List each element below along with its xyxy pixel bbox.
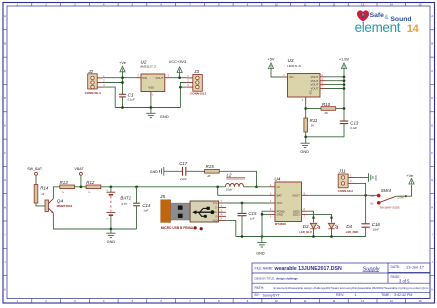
- junction C15 rail: [241, 235, 244, 238]
- wire C13 bottom across: [306, 124, 344, 137]
- wire R14 to Q4 base: [36, 203, 45, 206]
- svg-text:LX: LX: [277, 185, 281, 189]
- svg-text:D-: D-: [215, 208, 218, 210]
- wire C17 to R15: [186, 170, 205, 172]
- svg-text:B: B: [431, 42, 433, 46]
- svg-text:VSS: VSS: [148, 85, 154, 89]
- svg-text:2.2uF: 2.2uF: [179, 177, 187, 181]
- wire U4 VOUT to switch: [307, 194, 378, 196]
- svg-text:10uH: 10uH: [226, 188, 232, 192]
- wire R10 right: [336, 108, 344, 110]
- wire U4 PGND/GND tie: [262, 211, 269, 214]
- svg-text:Q4: Q4: [57, 198, 64, 203]
- resistor R13: [60, 180, 75, 194]
- svg-text:AMS1117_3: AMS1117_3: [139, 64, 156, 68]
- svg-text:NC: NC: [370, 202, 374, 205]
- svg-text:SW-2WAY-SLIDE: SW-2WAY-SLIDE: [380, 205, 400, 209]
- IC U4: [269, 177, 307, 226]
- svg-text:CONN-SIL3: CONN-SIL3: [85, 91, 101, 95]
- svg-text:G: G: [431, 178, 433, 182]
- wire J3 pin2 to ground: [180, 83, 186, 108]
- wire R10 left: [306, 108, 321, 110]
- svg-text:C13: C13: [350, 121, 359, 126]
- wire R13-R12: [75, 186, 87, 188]
- svg-text:1uF: 1uF: [250, 216, 255, 220]
- svg-text:MT3608: MT3608: [275, 222, 286, 226]
- svg-text:3 of 5: 3 of 5: [399, 278, 410, 283]
- svg-text:E: E: [4, 123, 6, 127]
- ground symbol U4: [256, 237, 266, 256]
- svg-text:CONN-SIL2: CONN-SIL2: [338, 189, 354, 193]
- svg-text:U4: U4: [274, 177, 280, 182]
- wire U2 VSS to ground rail: [150, 97, 152, 108]
- connector J5 micro usb: [159, 194, 226, 230]
- junction J3 gnd: [179, 86, 182, 89]
- svg-text:GND: GND: [107, 240, 116, 244]
- junction R11/C13 gnd: [304, 135, 307, 138]
- resistor R11: [304, 118, 318, 132]
- wire main VBAT rail: [101, 186, 225, 188]
- svg-text:H: H: [431, 205, 433, 209]
- wire L2 right to U4 LX: [244, 186, 270, 188]
- junction LX node: [255, 185, 258, 188]
- node VBAT terminal: [74, 167, 84, 175]
- resistor R14: [34, 185, 49, 204]
- svg-text:L2: L2: [227, 172, 232, 177]
- svg-text:2K: 2K: [324, 111, 329, 115]
- junction BAT1: [110, 185, 113, 188]
- svg-text:D: D: [431, 96, 433, 100]
- svg-text:GND: GND: [160, 114, 169, 119]
- svg-text:VIN: VIN: [142, 76, 147, 80]
- svg-text:VOUT: VOUT: [292, 193, 300, 197]
- node SW_BAT terminal: [27, 167, 43, 175]
- junction U4 gnd rail: [261, 235, 264, 238]
- svg-text:LM317L-N: LM317L-N: [287, 64, 301, 68]
- junction ADJ/R10: [304, 107, 307, 110]
- wire LED1 to D4: [307, 214, 332, 222]
- regulator U2: [136, 60, 171, 97]
- node VCC+3V3 power symbol: [169, 59, 186, 72]
- svg-text:E:\element14\wearable design c: E:\element14\wearable design challenge20…: [274, 286, 429, 290]
- wire R15 to LX node: [219, 171, 256, 187]
- svg-text:J2: J2: [87, 69, 93, 74]
- svg-text:A: A: [431, 14, 433, 18]
- svg-text:R13: R13: [60, 180, 69, 185]
- svg-text:GND: GND: [150, 170, 158, 174]
- switch SW4: [370, 188, 407, 209]
- svg-text:MICRO USB B FEMALE: MICRO USB B FEMALE: [161, 226, 196, 230]
- svg-text:REV:: REV:: [336, 293, 344, 297]
- svg-text:4: 4: [413, 23, 420, 35]
- wire BAT1 bottom: [110, 215, 112, 229]
- svg-text:SW4: SW4: [381, 188, 392, 193]
- svg-text:PATH:: PATH:: [255, 286, 265, 290]
- transistor Q4: [45, 198, 73, 213]
- capacitor C16: [361, 222, 380, 232]
- svg-text:D: D: [4, 96, 6, 100]
- battery BAT1: [106, 188, 131, 220]
- svg-text:13-Jun-17: 13-Jun-17: [406, 264, 425, 269]
- svg-text:R14: R14: [40, 186, 49, 191]
- wire USB GND to bottom rail: [226, 220, 236, 236]
- wire +5V to U3 VIn: [271, 69, 282, 78]
- wire U4 gnd down: [261, 214, 263, 236]
- svg-text:GND: GND: [374, 175, 377, 181]
- svg-text:K: K: [4, 287, 6, 291]
- junction +Ve/pin1: [121, 76, 124, 79]
- wire VBAT stem: [80, 175, 82, 187]
- junction C14: [135, 185, 138, 188]
- svg-text:C14: C14: [142, 203, 151, 208]
- svg-text:design challenge: design challenge: [276, 277, 298, 281]
- junction C1/rail: [121, 106, 124, 109]
- svg-text:DESIGN TITLE:: DESIGN TITLE:: [255, 276, 276, 280]
- resistor R10: [321, 102, 336, 115]
- svg-text:GND: GND: [277, 213, 283, 217]
- svg-text:C: C: [431, 69, 433, 73]
- svg-text:K: K: [431, 287, 433, 291]
- svg-text:D4: D4: [346, 224, 352, 229]
- node +Ve power symbol (left): [119, 60, 126, 72]
- inductor L2: [225, 172, 245, 191]
- regulator U3: [282, 58, 326, 102]
- logo Safe&Sound element14: [355, 10, 420, 35]
- svg-text:wearable 13JUNE2017.DSN: wearable 13JUNE2017.DSN: [274, 266, 342, 272]
- junction R10/+1.8V: [343, 107, 346, 110]
- svg-text:GND: GND: [256, 252, 265, 256]
- svg-text:1: 1: [355, 293, 357, 297]
- junction D4 rail: [330, 235, 333, 238]
- svg-text:R12: R12: [86, 180, 95, 185]
- svg-text:FILE NAME:: FILE NAME:: [255, 266, 274, 270]
- junctions U3 VOUT pins on +1.8V rail: [343, 75, 346, 78]
- resistor R15: [205, 164, 220, 178]
- wire C14 bottom: [136, 206, 138, 229]
- capacitor C15: [237, 211, 257, 220]
- svg-text:GND: GND: [212, 220, 217, 222]
- svg-text:GND: GND: [300, 149, 309, 154]
- wire ground rail U2 section: [115, 107, 180, 109]
- wire C1 to ground rail: [122, 97, 124, 108]
- wire C16 bottom: [365, 227, 367, 236]
- svg-text:R11: R11: [310, 118, 318, 123]
- capacitor C1: [119, 92, 135, 101]
- node +Ve power symbol (right): [406, 173, 414, 184]
- wires U3 VOUT pins to +1.8V rail: [326, 76, 345, 78]
- svg-text:B: B: [4, 42, 6, 46]
- svg-text:E: E: [431, 123, 433, 127]
- svg-text:C15: C15: [248, 211, 257, 216]
- svg-text:3:42:42 PM: 3:42:42 PM: [394, 293, 412, 297]
- svg-text:J3: J3: [193, 69, 199, 74]
- wire gnd to C17: [164, 170, 183, 172]
- svg-text:C16: C16: [372, 222, 381, 227]
- svg-text:VCC: VCC: [277, 201, 283, 205]
- svg-text:10nF: 10nF: [373, 228, 379, 232]
- junction VBAT: [80, 185, 83, 188]
- svg-text:C: C: [4, 69, 6, 73]
- junction D3 rail: [312, 235, 315, 238]
- wire +Ve to VIN node: [122, 72, 124, 94]
- wire J2 pin1 to U2 VIN: [103, 77, 137, 79]
- junction C16/J11: [364, 194, 367, 197]
- wire D4 cathode: [331, 229, 333, 237]
- wire C15 bottom: [241, 216, 243, 237]
- svg-text:C17: C17: [179, 161, 188, 166]
- svg-text:MMBT3904: MMBT3904: [57, 204, 73, 208]
- wire J2 pin3 to ground rail: [103, 87, 116, 107]
- wire bottom ground rail: [236, 236, 366, 238]
- wire VCC+3V3 stem: [179, 72, 181, 77]
- svg-text:U3: U3: [288, 58, 294, 63]
- wire C15 top: [241, 203, 243, 213]
- junction VSS/rail: [150, 106, 153, 109]
- svg-text:+Ve: +Ve: [119, 60, 126, 65]
- svg-text:BY:: BY:: [255, 293, 260, 297]
- svg-text:SunnySYT: SunnySYT: [263, 293, 281, 297]
- svg-text:LED_RED: LED_RED: [346, 230, 359, 234]
- svg-text:SW_BAT: SW_BAT: [27, 167, 43, 171]
- wire USB VCC to U4 VCC: [226, 202, 269, 204]
- svg-text:R15: R15: [206, 164, 215, 169]
- capacitor C17: [179, 161, 188, 181]
- svg-text:ADJ: ADJ: [310, 89, 313, 94]
- ground symbol (sideways) J11: [369, 173, 378, 182]
- wire SW4 COM to +Ve: [396, 185, 411, 196]
- junction pgnd tie: [261, 213, 264, 216]
- wire J11 pin2 to VOUT net: [355, 183, 366, 195]
- svg-text:NO: NO: [371, 195, 375, 198]
- wire BAT branch: [218, 187, 269, 196]
- svg-text:DATE:: DATE:: [391, 265, 401, 269]
- node +5V power symbol: [267, 57, 274, 69]
- wire C14 top: [136, 187, 138, 203]
- wire SW_BAT to R14: [35, 175, 37, 184]
- capacitor C13: [340, 121, 359, 130]
- svg-text:ID: ID: [215, 216, 218, 218]
- svg-text:VCC+3V3: VCC+3V3: [169, 59, 186, 64]
- connector J2: [85, 69, 106, 95]
- svg-text:1K: 1K: [207, 174, 210, 178]
- wire U2 VOUT to J3 pin1: [171, 77, 187, 79]
- svg-text:+5V: +5V: [267, 57, 274, 62]
- svg-text:VIn: VIn: [289, 75, 294, 79]
- wire J11 pin1 to gnd: [355, 177, 369, 179]
- svg-text:TIME:: TIME:: [381, 293, 391, 297]
- svg-text:J11: J11: [338, 168, 347, 173]
- connector J11: [338, 168, 355, 193]
- junction BAT1 gnd: [110, 228, 113, 231]
- capacitor C14: [133, 203, 151, 213]
- svg-text:1K: 1K: [311, 124, 315, 128]
- svg-text:G: G: [4, 178, 6, 182]
- svg-text:element: element: [355, 20, 401, 35]
- wire J3 pin3 to ground: [180, 86, 186, 88]
- diode D4 LED_RED: [328, 223, 358, 234]
- svg-text:LED_BLU: LED_BLU: [299, 230, 311, 234]
- svg-text:CONN-SIL3: CONN-SIL3: [190, 92, 206, 96]
- svg-text:R10: R10: [322, 102, 331, 107]
- svg-text:+Ve: +Ve: [406, 173, 413, 178]
- wire J2 pin2 to +Ve node: [103, 82, 123, 84]
- svg-text:H: H: [4, 205, 6, 209]
- svg-text:A: A: [4, 14, 6, 18]
- svg-text:BAT1: BAT1: [120, 196, 131, 201]
- svg-text:Safe: Safe: [370, 12, 385, 19]
- resistor R12: [86, 180, 101, 194]
- svg-text:D3: D3: [303, 224, 309, 229]
- junction VOUT/VCC: [178, 76, 181, 79]
- svg-text:VCC: VCC: [213, 203, 218, 205]
- junction C15: [241, 202, 244, 205]
- svg-text:1uF: 1uF: [143, 209, 148, 213]
- wire ADJ down: [305, 102, 307, 119]
- diode D3 LED_BLU: [299, 223, 320, 234]
- wire BAT1 top: [110, 187, 112, 192]
- svg-text:VBAT: VBAT: [74, 167, 84, 171]
- svg-text:LED1: LED1: [293, 213, 300, 217]
- wire +1.8V rail: [343, 69, 345, 122]
- wire Q4 emitter to bottom rail: [53, 213, 136, 229]
- svg-text:0.1uF: 0.1uF: [350, 126, 357, 130]
- node +1.8V power symbol: [339, 57, 350, 69]
- svg-text:BAT: BAT: [277, 193, 283, 197]
- ground symbol BAT1: [106, 229, 115, 244]
- connector J3: [186, 69, 206, 96]
- svg-text:VOUT: VOUT: [155, 76, 163, 80]
- svg-text:J5: J5: [159, 194, 165, 199]
- title block: [252, 263, 430, 299]
- ground symbol U2: [146, 108, 169, 119]
- junction BAT pin branch: [216, 185, 219, 188]
- wire D3 cathode: [313, 229, 315, 237]
- svg-text:+1.8V: +1.8V: [339, 57, 350, 62]
- svg-text:0.1uF: 0.1uF: [128, 97, 135, 101]
- wire C16 top: [365, 195, 367, 224]
- ground symbol U3: [300, 143, 309, 154]
- wire Q4 collector: [53, 187, 59, 199]
- wire R11 bottom to gnd: [305, 132, 307, 143]
- ground symbol (sideways) at C17: [150, 167, 164, 176]
- junction +Ve/pin2: [121, 81, 124, 84]
- wire LED2 to D3: [307, 211, 314, 222]
